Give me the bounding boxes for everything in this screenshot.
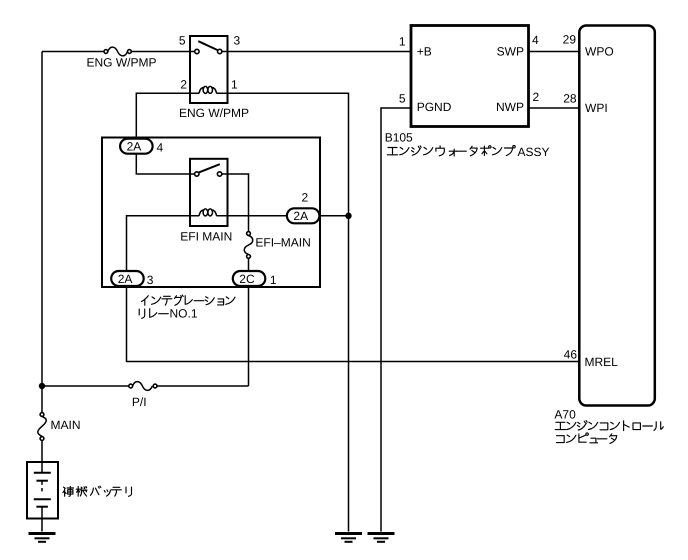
pin 5 of B105 bbox=[399, 92, 406, 106]
pin 1 of B105 bbox=[399, 34, 406, 48]
ground battery bbox=[29, 534, 56, 542]
pin 28 bbox=[563, 92, 577, 106]
svg-text:P/I: P/I bbox=[132, 395, 147, 409]
svg-text:1: 1 bbox=[231, 78, 238, 92]
svg-text:29: 29 bbox=[563, 33, 577, 47]
svg-text:2: 2 bbox=[180, 78, 187, 92]
svg-text:28: 28 bbox=[563, 92, 577, 106]
pin 1 bbox=[231, 78, 238, 92]
wire relay pin 3 to B105 +B bbox=[222, 51, 411, 53]
ground center-right bbox=[368, 534, 395, 542]
label battery 補機バッテリ bbox=[63, 486, 132, 496]
svg-text:SWP: SWP bbox=[497, 45, 524, 59]
relay ENG W/PMP switch contacts bbox=[195, 41, 222, 54]
svg-text:EFI MAIN: EFI MAIN bbox=[180, 230, 232, 244]
fusible link MAIN bbox=[38, 52, 46, 463]
integration relay box bbox=[102, 138, 320, 288]
svg-text:46: 46 bbox=[564, 347, 578, 361]
pin 1 of connector 2C bbox=[270, 273, 277, 287]
svg-text:+B: +B bbox=[417, 45, 432, 59]
svg-text:ASSY: ASSY bbox=[518, 145, 550, 159]
svg-text:2: 2 bbox=[533, 90, 540, 104]
svg-text:EFI–MAIN: EFI–MAIN bbox=[255, 236, 310, 250]
svg-text:5: 5 bbox=[399, 92, 406, 106]
svg-text:ENG W/PMP: ENG W/PMP bbox=[179, 106, 249, 120]
svg-text:WPO: WPO bbox=[585, 45, 614, 59]
wire node to EFI MAIN switch bbox=[136, 154, 194, 174]
wire NWP to WPI bbox=[529, 107, 581, 109]
svg-text:4: 4 bbox=[532, 33, 539, 47]
svg-text:1: 1 bbox=[399, 34, 406, 48]
relay EFI MAIN coil bbox=[199, 209, 217, 216]
label A70 caption line2 コンピュータ bbox=[556, 433, 616, 444]
wire relay pin 2 to node bbox=[136, 93, 199, 139]
svg-text:3: 3 bbox=[147, 273, 154, 287]
pin 2 of connector 2A bbox=[302, 191, 309, 205]
wire top feed from battery vertical to fuse bbox=[42, 51, 104, 53]
wire fuse to relay pin 5 bbox=[131, 51, 194, 53]
connector 2A pin 3 oval bbox=[111, 271, 144, 286]
svg-text:3: 3 bbox=[234, 34, 241, 48]
connector 2C pin 1 oval bbox=[233, 271, 265, 286]
label B105 bbox=[385, 131, 413, 145]
pin 4 of B105 bbox=[532, 33, 539, 47]
connector 2A pin 4 oval bbox=[120, 139, 153, 154]
pin 5 bbox=[179, 34, 186, 48]
relay ENG W/PMP coil bbox=[199, 86, 217, 93]
ECU A70 box bbox=[579, 26, 655, 406]
relay EFI MAIN switch contacts bbox=[195, 164, 222, 176]
wire battery to ground bbox=[41, 519, 43, 532]
label WPI bbox=[585, 101, 608, 115]
svg-text:WPI: WPI bbox=[585, 101, 608, 115]
ground center-left bbox=[335, 534, 362, 542]
svg-text:NO.1: NO.1 bbox=[170, 307, 198, 321]
wire fusible link to 2C bbox=[248, 258, 250, 386]
svg-text:2A: 2A bbox=[293, 209, 308, 223]
svg-text:4: 4 bbox=[157, 141, 164, 155]
label integration relay line2 リレーNO.1 bbox=[139, 309, 168, 319]
label MAIN bbox=[51, 418, 81, 432]
wire EFI MAIN switch to fusible link bbox=[222, 174, 249, 232]
label EFI-MAIN bbox=[255, 236, 310, 250]
component B105 box bbox=[411, 26, 529, 127]
label integration relay line1 インテグレーション bbox=[142, 295, 236, 305]
pin 2 of B105 bbox=[533, 90, 540, 104]
svg-text:2A: 2A bbox=[127, 140, 142, 154]
junction dot coil node bbox=[345, 213, 351, 219]
battery cells bbox=[34, 462, 51, 519]
svg-text:2A: 2A bbox=[118, 272, 133, 286]
connector 2A pin 2 oval bbox=[287, 208, 320, 223]
pin 2 bbox=[180, 78, 187, 92]
label P/I bbox=[132, 395, 147, 409]
relay EFI MAIN box bbox=[190, 159, 228, 226]
svg-text:MREL: MREL bbox=[585, 355, 619, 369]
wire relay pin 1 to ground rail bbox=[216, 93, 348, 531]
svg-text:MAIN: MAIN bbox=[51, 418, 81, 432]
wire B105 PGND to ground bbox=[381, 108, 411, 532]
svg-text:5: 5 bbox=[179, 34, 186, 48]
svg-text:1: 1 bbox=[270, 273, 277, 287]
label B105 caption エンジンウォータポンプASSY bbox=[387, 146, 515, 157]
svg-text:B105: B105 bbox=[385, 131, 413, 145]
pin 3 bbox=[234, 34, 241, 48]
label A70 bbox=[554, 408, 576, 422]
wire SWP to WPO bbox=[529, 51, 581, 53]
fuse P/I bbox=[42, 382, 249, 391]
svg-text:2: 2 bbox=[302, 191, 309, 205]
label A70 caption line1 エンジンコントロール bbox=[555, 421, 663, 431]
label NWP bbox=[496, 100, 524, 114]
svg-text:A70: A70 bbox=[554, 408, 576, 422]
label fuse ENG W/PMP bbox=[87, 56, 157, 70]
wire EFI MAIN coil right to 2A pin 2 and node bbox=[216, 215, 348, 217]
svg-text:PGND: PGND bbox=[417, 100, 452, 114]
label SWP bbox=[497, 45, 524, 59]
label +B bbox=[417, 45, 432, 59]
relay ENG W/PMP box bbox=[190, 36, 228, 103]
label relay EFI MAIN bbox=[180, 230, 232, 244]
fusible link EFI-MAIN bbox=[244, 232, 252, 259]
wire EFI MAIN coil left to 2A pin 3 and MREL bbox=[127, 216, 581, 362]
label relay ENG W/PMP bbox=[179, 106, 249, 120]
junction dot battery node bbox=[39, 383, 45, 389]
pin 3 of connector 2A bbox=[147, 273, 154, 287]
svg-text:2C: 2C bbox=[239, 272, 255, 286]
fuse ENG W/PMP bbox=[104, 47, 131, 56]
label MREL bbox=[585, 355, 619, 369]
svg-text:NWP: NWP bbox=[496, 100, 524, 114]
battery 補機バッテリ box bbox=[27, 462, 58, 519]
svg-text:ENG W/PMP: ENG W/PMP bbox=[87, 56, 157, 70]
label PGND bbox=[417, 100, 452, 114]
pin 46 bbox=[564, 347, 578, 361]
pin 4 bbox=[157, 141, 164, 155]
label WPO bbox=[585, 45, 614, 59]
pin 29 bbox=[563, 33, 577, 47]
